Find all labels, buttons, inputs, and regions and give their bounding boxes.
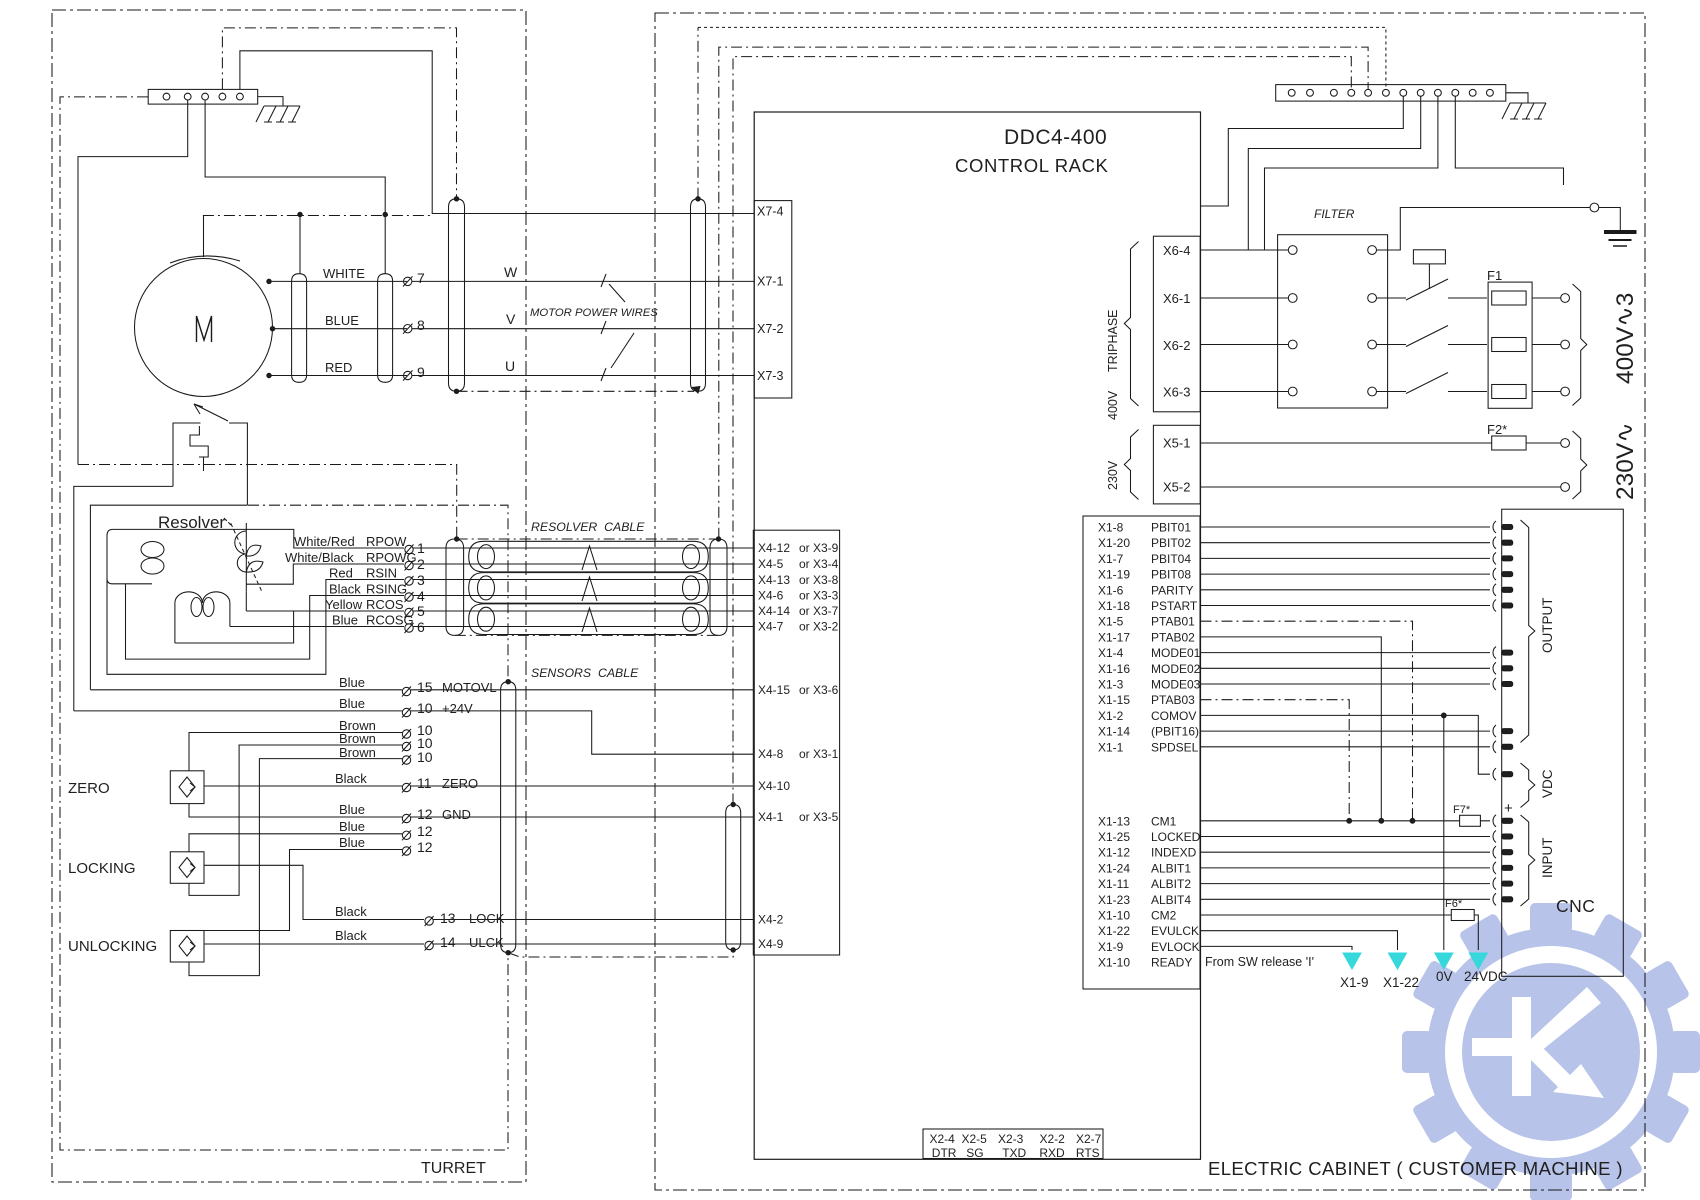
junction COMOV 0V — [1441, 713, 1446, 718]
arrow X1-22 — [1389, 953, 1407, 969]
svg-text:White/Black: White/Black — [285, 550, 354, 565]
svg-text:X4-2: X4-2 — [758, 913, 784, 927]
fuse F7 — [1460, 815, 1481, 826]
svg-text:X1-5: X1-5 — [1098, 615, 1124, 629]
junction CM1 PTAB03 — [1347, 818, 1352, 823]
svg-text:READY: READY — [1151, 956, 1192, 970]
terminal TB pin 4 — [219, 93, 226, 100]
svg-text:LOCKING: LOCKING — [68, 860, 136, 877]
wire label BLUE — [325, 313, 359, 328]
wire X6-2 row — [1201, 344, 1289, 346]
wire label Brown 10 b — [339, 718, 433, 738]
terminal 15 — [402, 687, 411, 697]
wire label Blue 15 MOTOVL — [339, 675, 497, 695]
label 400V~3 rotated — [1612, 293, 1639, 384]
wire label Blue RCOSG — [332, 613, 414, 628]
svg-text:X1-9: X1-9 — [1098, 940, 1124, 954]
svg-text:X1-4: X1-4 — [1098, 646, 1124, 660]
sensor LOCKING label — [68, 860, 136, 877]
svg-text:VDC: VDC — [1540, 769, 1555, 798]
svg-text:12: 12 — [417, 806, 433, 822]
wire ALBIT2 — [1201, 883, 1491, 885]
earth ground symbol — [1599, 208, 1637, 247]
svg-text:X1-7: X1-7 — [1098, 552, 1124, 566]
svg-text:X4-6: X4-6 — [758, 589, 784, 603]
svg-text:X4-5: X4-5 — [758, 557, 784, 571]
wire label Blue 12 c — [339, 835, 433, 855]
svg-text:or X3-8: or X3-8 — [799, 573, 839, 587]
svg-text:15: 15 — [417, 679, 433, 695]
svg-text:10: 10 — [417, 700, 433, 716]
svg-text:X6-4: X6-4 — [1163, 243, 1190, 258]
svg-text:+: + — [1504, 800, 1513, 817]
wire earth loop from turret terminal strip around turret — [60, 97, 508, 1150]
svg-text:RTS: RTS — [1076, 1146, 1100, 1160]
connector X4 — [753, 530, 839, 955]
svg-text:F1: F1 — [1487, 268, 1502, 283]
svg-text:F6*: F6* — [1445, 898, 1463, 910]
svg-text:400V∿3: 400V∿3 — [1612, 293, 1639, 384]
wire terminal1 to X4-12 — [413, 547, 753, 549]
svg-text:SENSORS CABLE: SENSORS CABLE — [531, 666, 639, 680]
wire TB pin4 dash-dot to motor cable shield — [222, 28, 456, 199]
resolver cosine winding — [175, 592, 230, 643]
terminal R6 — [405, 623, 414, 633]
wire resolver RSIN to terminal 3 — [107, 535, 404, 674]
svg-text:F7*: F7* — [1453, 804, 1471, 816]
svg-text:8: 8 — [417, 317, 425, 333]
chassis ground symbol at turret terminal strip — [256, 97, 300, 122]
wire label RED — [325, 360, 352, 375]
svg-text:X1-8: X1-8 — [1098, 521, 1124, 535]
junction shield line TB5 riser — [383, 212, 387, 216]
terminal 12b — [402, 830, 411, 840]
chassis ground symbol at cabinet strip — [1502, 93, 1546, 119]
svg-text:ELECTRIC CABINET ( CUSTOMER MA: ELECTRIC CABINET ( CUSTOMER MACHINE ) — [1208, 1158, 1623, 1179]
terminal R4 — [405, 592, 414, 602]
brace VDC — [1521, 763, 1535, 808]
wire MOTOVL to X4-15 — [411, 689, 753, 691]
connector X1 box — [1083, 516, 1200, 989]
terminal R1 — [405, 545, 414, 555]
svg-text:X1-9: X1-9 — [1340, 975, 1369, 990]
svg-text:13: 13 — [440, 910, 456, 926]
wire LOCK signal — [204, 865, 424, 919]
terminal TB pin 3 — [202, 93, 209, 100]
svg-text:Black: Black — [329, 582, 361, 597]
svg-text:RXD: RXD — [1039, 1146, 1065, 1160]
wire UNLOCKING box gnd — [204, 850, 402, 931]
watermark gear logo — [1402, 903, 1700, 1200]
wire PTAB02 to CM1 net — [1201, 637, 1382, 821]
svg-text:LOCKED: LOCKED — [1151, 830, 1201, 844]
filter pins left — [1288, 246, 1297, 396]
wire label Brown 10 d — [339, 745, 433, 765]
wire label Yellow RCOS — [325, 597, 404, 612]
svg-text:PBIT02: PBIT02 — [1151, 536, 1191, 550]
switch S1 pole 2 — [1377, 326, 1488, 347]
connector X6 — [1153, 236, 1200, 412]
connector X1 pin labels — [1098, 521, 1201, 970]
twisted pair 1 sheath — [469, 541, 709, 572]
svg-text:TXD: TXD — [1002, 1146, 1026, 1160]
svg-text:PTAB03: PTAB03 — [1151, 693, 1195, 707]
svg-text:or X3-7: or X3-7 — [799, 604, 839, 618]
svg-text:F2*: F2* — [1487, 422, 1507, 437]
brace 400V supply — [1573, 284, 1587, 406]
fuse F7 label — [1453, 804, 1471, 816]
svg-text:ZERO: ZERO — [68, 780, 110, 797]
terminal 230V N — [1561, 483, 1570, 492]
wire resolver RPOW to terminal 1 — [246, 529, 404, 548]
node motor U — [267, 373, 271, 377]
svg-text:X4-9: X4-9 — [758, 937, 784, 951]
svg-text:INDEXD: INDEXD — [1151, 846, 1197, 860]
wire brown 2 LOCKING supply — [189, 745, 402, 895]
wire strip pin10 stub — [1455, 96, 1563, 185]
node sensors shield left top — [506, 680, 510, 684]
wire terminal6 to X4-7 — [413, 626, 753, 628]
svg-text:W: W — [504, 264, 518, 280]
terminal 13 — [425, 916, 434, 926]
fuse F6 label — [1445, 898, 1463, 910]
svg-text:X4-8: X4-8 — [758, 747, 784, 761]
connector X6 pin labels — [1163, 243, 1190, 400]
svg-text:ALBIT1: ALBIT1 — [1151, 861, 1191, 875]
cable shield oval small 1 — [292, 274, 307, 383]
svg-text:230V∿: 230V∿ — [1612, 422, 1639, 500]
terminal 10d — [402, 755, 411, 765]
svg-text:X2-5: X2-5 — [962, 1132, 988, 1146]
svg-text:LOCK: LOCK — [469, 911, 505, 926]
junction CM1 PTAB02 — [1379, 818, 1384, 823]
svg-text:Blue: Blue — [339, 696, 365, 711]
svg-text:MODE03: MODE03 — [1151, 678, 1201, 692]
terminal 230V L — [1561, 439, 1570, 448]
junction X7 cable shield top — [696, 197, 700, 201]
terminal TB pin 2 — [184, 93, 191, 100]
svg-text:Black: Black — [335, 904, 367, 919]
wire LOCKING box gnd — [189, 834, 402, 852]
svg-text:X1-16: X1-16 — [1098, 662, 1130, 676]
terminal 12a — [402, 814, 411, 824]
brace OUTPUT — [1521, 520, 1535, 743]
node resolver shield right top — [716, 537, 720, 541]
switch S1 actuator — [1413, 250, 1445, 289]
wire strip pin8 to mains L1 — [1248, 96, 1420, 250]
wire strip pin9 to mains — [1265, 96, 1438, 250]
connector X7 pin labels — [757, 205, 783, 384]
wire ZERO signal — [204, 785, 402, 787]
fuse F1 box — [1488, 282, 1532, 408]
wire CM2 to F6 to 24VDC — [1201, 915, 1479, 950]
node sensors shield right top — [731, 802, 735, 806]
motor label M — [197, 316, 212, 342]
wire resolver RSING to terminal 4 — [126, 584, 405, 659]
node motor W — [267, 279, 271, 283]
svg-text:X1-13: X1-13 — [1098, 814, 1130, 828]
resolver primary winding — [107, 529, 246, 583]
svg-text:Black: Black — [335, 771, 367, 786]
svg-text:Red: Red — [329, 566, 353, 581]
svg-text:PARITY: PARITY — [1151, 583, 1193, 597]
wire W to X7-1 — [412, 280, 754, 282]
fuse F2 label — [1487, 422, 1507, 437]
svg-text:X6-1: X6-1 — [1163, 291, 1190, 306]
wire PBIT04 — [1201, 557, 1491, 559]
svg-text:RCOS: RCOS — [366, 597, 404, 612]
svg-text:Brown: Brown — [339, 745, 376, 760]
wire label Black 11 ZERO — [335, 771, 478, 791]
wire label White/Black RPOWG — [285, 550, 417, 565]
wire EVULCK to X1-22 arrow — [1201, 931, 1398, 950]
wire motor U terminal — [268, 375, 407, 377]
wire terminal4 to X4-6 — [413, 595, 753, 597]
wire U to X7-3 — [412, 375, 754, 377]
wire COMOV to 0V and VDC- — [1201, 715, 1491, 950]
wire EVLOCK to X1-9 arrow — [1201, 946, 1353, 950]
svg-text:CM1: CM1 — [1151, 814, 1177, 828]
svg-text:MODE01: MODE01 — [1151, 646, 1201, 660]
label 230V rotated — [1106, 460, 1120, 490]
svg-text:RSING: RSING — [366, 582, 407, 597]
wire TB pin2 branch to resolver cable shield — [78, 465, 457, 540]
twisted pair 2 sheath — [469, 573, 709, 604]
svg-text:DTR: DTR — [932, 1146, 957, 1160]
svg-text:PBIT01: PBIT01 — [1151, 521, 1191, 535]
wire motor W terminal — [268, 280, 407, 282]
label 230V~ rotated — [1612, 422, 1639, 500]
turret enclosure frame — [52, 10, 526, 1182]
label OUTPUT rotated — [1540, 598, 1555, 654]
wire PTAB01 to CM1 net — [1201, 621, 1413, 821]
wire V to X7-2 — [412, 328, 754, 330]
fuse F1 element 3 — [1492, 385, 1561, 399]
svg-text:X6-2: X6-2 — [1163, 338, 1190, 353]
CNC contacts output group — [1493, 521, 1513, 905]
wire X5-1 to F2 — [1201, 442, 1492, 444]
wire label Blue 12 b — [339, 819, 433, 839]
label INPUT rotated — [1540, 838, 1555, 879]
connector X4 pin labels — [758, 541, 839, 951]
svg-text:MOTOVL: MOTOVL — [442, 680, 497, 695]
svg-text:Blue: Blue — [339, 835, 365, 850]
svg-text:X1-14: X1-14 — [1098, 725, 1130, 739]
arrow 0V — [1435, 953, 1453, 969]
wire label Blue 12 GND — [339, 802, 471, 822]
wire MODE01 — [1201, 652, 1491, 654]
motor cable shield oval big 1 — [449, 199, 465, 391]
svg-text:or X3-6: or X3-6 — [799, 683, 839, 697]
svg-text:FILTER: FILTER — [1314, 207, 1355, 221]
svg-text:X1-10: X1-10 — [1098, 956, 1130, 970]
svg-text:EVLOCK: EVLOCK — [1151, 940, 1200, 954]
wire resolver shield to strip pin5 — [719, 47, 1368, 539]
callout tick on V wire — [601, 321, 606, 334]
svg-text:X1-19: X1-19 — [1098, 568, 1130, 582]
wire X6-1 row — [1201, 297, 1289, 299]
motor power wires callout — [530, 307, 658, 319]
svg-text:UNLOCKING: UNLOCKING — [68, 938, 157, 955]
cable shield oval small 2 — [378, 274, 393, 383]
svg-text:X1-12: X1-12 — [1098, 846, 1130, 860]
wire label Black 14 ULCK — [335, 928, 504, 950]
label 0V — [1436, 969, 1453, 984]
svg-text:X1-10: X1-10 — [1098, 909, 1130, 923]
wire ALBIT4 — [1201, 898, 1491, 900]
strip TS pins — [1288, 89, 1493, 96]
connector X2 — [923, 1129, 1103, 1159]
twisted pair 3 sheath — [469, 604, 709, 635]
arrow 24VDC — [1469, 953, 1487, 969]
svg-text:RPOWG: RPOWG — [366, 550, 417, 565]
resolver cable shield oval right — [710, 539, 727, 635]
svg-text:X1-18: X1-18 — [1098, 599, 1130, 613]
motor cable shield oval big 2 — [691, 199, 706, 391]
callout leader to U wire — [611, 333, 634, 368]
thermal switch Q1 blade — [194, 404, 228, 421]
terminal 400V L1 — [1561, 294, 1570, 303]
svg-text:ALBIT2: ALBIT2 — [1151, 877, 1191, 891]
wire filter earth to PE circle — [1377, 208, 1591, 251]
svg-text:400V: 400V — [1106, 390, 1120, 420]
svg-text:X1-25: X1-25 — [1098, 830, 1130, 844]
node sensors shield right bottom — [731, 948, 735, 952]
pin label 7 — [417, 270, 425, 286]
svg-text:X5-2: X5-2 — [1163, 480, 1190, 495]
svg-text:X1-2: X1-2 — [1098, 709, 1124, 723]
svg-text:PBIT08: PBIT08 — [1151, 568, 1191, 582]
svg-text:Blue: Blue — [339, 819, 365, 834]
wire terminal2 to X4-5 — [413, 563, 753, 565]
callout tick on U wire — [601, 368, 606, 381]
node sensors shield left bottom — [506, 951, 510, 955]
wire sensors shield to strip pin4 — [733, 57, 1351, 805]
terminal strip TB (turret) — [148, 89, 258, 104]
wire terminal3 to X4-13 — [413, 579, 753, 581]
svg-text:10: 10 — [417, 749, 433, 765]
svg-text:INPUT: INPUT — [1540, 838, 1555, 879]
svg-text:U: U — [505, 358, 515, 374]
terminal TB pin 1 — [163, 93, 170, 100]
wire INDEXD — [1201, 851, 1491, 853]
wire brown 3 UNLOCKING supply — [189, 759, 402, 976]
shield drain line above motor — [203, 215, 432, 217]
pin labels 1-6 — [417, 540, 425, 635]
sensor UNLOCKING box — [170, 931, 204, 963]
wire resolver RPOWG to terminal 2 — [246, 564, 404, 584]
terminal 8 — [403, 324, 413, 334]
svg-text:X1-23: X1-23 — [1098, 893, 1130, 907]
svg-text:X4-13: X4-13 — [758, 573, 790, 587]
wire PARITY — [1201, 589, 1491, 591]
svg-text:X5-1: X5-1 — [1163, 436, 1190, 451]
svg-text:X7-3: X7-3 — [757, 369, 783, 383]
svg-text:X1-15: X1-15 — [1098, 693, 1130, 707]
resolver cable label — [531, 520, 645, 534]
thermal switch Q1 body — [173, 423, 247, 505]
node motor V — [270, 327, 274, 331]
svg-text:9: 9 — [417, 364, 425, 380]
svg-text:Black: Black — [335, 928, 367, 943]
svg-text:X4-10: X4-10 — [758, 779, 790, 793]
wire X5-2 row — [1201, 486, 1561, 488]
wire label Blue 10 +24V — [339, 696, 473, 716]
svg-text:X1-3: X1-3 — [1098, 678, 1124, 692]
svg-text:7: 7 — [417, 270, 425, 286]
wire X7 shield to strip pin6 — [698, 27, 1386, 89]
net label V — [506, 311, 516, 327]
wire MODE03 — [1201, 683, 1491, 685]
wire label Red RSIN — [329, 566, 397, 581]
wire TB pin5 to X7-4 — [240, 51, 754, 214]
svg-text:X7-2: X7-2 — [757, 322, 783, 336]
resolver cable shield top link — [457, 538, 719, 540]
connector X2 labels — [930, 1132, 1102, 1160]
resolver label — [158, 513, 225, 532]
brace 400V triphase — [1124, 242, 1138, 407]
sensors cable shield oval left — [501, 682, 516, 953]
wire PBIT01 — [1201, 526, 1491, 528]
wire strip pin7 earth to rack chassis — [1201, 96, 1404, 206]
node resolver shield left top — [455, 537, 459, 541]
svg-text:X1-20: X1-20 — [1098, 536, 1130, 550]
terminal 9 — [403, 370, 413, 380]
connector X7 — [754, 201, 792, 398]
svg-text:MODE02: MODE02 — [1151, 662, 1201, 676]
label VDC rotated — [1540, 769, 1555, 798]
fuse F1 element 2 — [1492, 338, 1561, 352]
sensor ZERO box — [170, 771, 204, 804]
svg-text:SG: SG — [966, 1146, 983, 1160]
terminal R5 — [405, 608, 414, 618]
wire shield bottom link dash-dot — [457, 27, 699, 391]
svg-text:or X3-4: or X3-4 — [799, 557, 839, 571]
wire ZERO box gnd — [189, 804, 402, 817]
wire resolver RCOS to terminal 5 — [175, 592, 404, 643]
svg-text:MOTOR POWER WIRES: MOTOR POWER WIRES — [530, 307, 658, 319]
connector X5 pin labels — [1163, 436, 1190, 495]
wire label WHITE — [323, 266, 365, 281]
svg-text:TURRET: TURRET — [421, 1160, 486, 1177]
svg-text:X1-17: X1-17 — [1098, 630, 1130, 644]
svg-text:RPOW: RPOW — [366, 534, 407, 549]
svg-text:From SW release 'I': From SW release 'I' — [1205, 955, 1314, 969]
svg-text:PBIT04: PBIT04 — [1151, 552, 1191, 566]
resolver cable shield oval left — [446, 539, 464, 635]
svg-text:X1-24: X1-24 — [1098, 861, 1130, 875]
svg-text:or X3-2: or X3-2 — [799, 620, 839, 634]
svg-text:X1-11: X1-11 — [1098, 877, 1129, 891]
wire LOCKED — [1201, 836, 1491, 838]
resolver cable shield bottom link — [455, 634, 719, 636]
svg-text:Brown: Brown — [339, 731, 376, 746]
wire ZERO to X4-10 — [411, 785, 753, 787]
svg-text:11: 11 — [417, 775, 432, 791]
brace 230V — [1124, 430, 1138, 500]
svg-text:ALBIT4: ALBIT4 — [1151, 893, 1191, 907]
wire GND to X4-1 — [411, 816, 753, 818]
brace 230V supply — [1573, 431, 1587, 499]
wire PSTART — [1201, 605, 1491, 607]
svg-text:(PBIT16): (PBIT16) — [1151, 725, 1199, 739]
wire ULCK to X4-9 — [434, 943, 754, 945]
wire MOTOVL row — [90, 689, 402, 691]
label 400V rotated — [1106, 390, 1120, 420]
svg-text:X4-1: X4-1 — [758, 810, 784, 824]
svg-text:CM2: CM2 — [1151, 909, 1177, 923]
svg-text:or X3-9: or X3-9 — [799, 541, 839, 555]
